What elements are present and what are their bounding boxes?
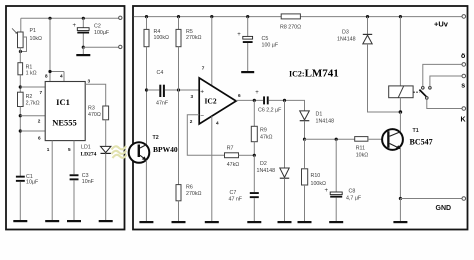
capacitor C5 [237,17,279,71]
svg-text:C6 2,2 µF: C6 2,2 µF [258,107,282,113]
relay actuator dashed link [413,91,419,93]
receiver box frame [133,6,468,230]
svg-text:NE555: NE555 [52,118,77,128]
node pin8 loop junction [48,70,51,73]
wire C4 to op-amp plus input [165,90,199,99]
wire T2 emitter to ground [145,160,147,221]
resistor R1 [18,63,37,77]
svg-text:C2: C2 [94,23,101,29]
wire pin 1 to ground [47,141,52,220]
svg-text:BPW40: BPW40 [153,145,178,154]
wire top rail left [21,18,119,32]
ground under C1 [13,220,27,222]
svg-text:3: 3 [191,94,194,99]
wire NC contact to terminal [423,64,462,86]
svg-text:270kΩ: 270kΩ [186,35,201,41]
terminal s [461,74,465,89]
svg-text:1N4148: 1N4148 [257,168,276,174]
node GND junction [399,197,402,200]
wire pin 2 [20,116,45,124]
ground under T1 [393,221,407,223]
ground under C5 [241,71,254,73]
wire C2 to terminal [83,46,118,48]
wire R2 down to C1 [19,107,21,177]
svg-text:IC2: IC2 [205,97,217,106]
ground under pin 1 [45,220,59,222]
svg-text:R9: R9 [260,127,267,133]
node D3 rail junction [366,15,369,18]
ground under C2 [76,54,90,56]
svg-text:R11: R11 [356,146,365,152]
ground under R6 [172,221,186,223]
wire D3 to coil node [368,44,401,112]
svg-text:2: 2 [38,119,41,124]
svg-text:+: + [255,90,259,96]
terminal +Uv [434,15,466,29]
svg-text:1N4148: 1N4148 [316,118,335,124]
resistor R8 [280,14,301,31]
relay switch arm [419,87,431,100]
wire R4 to T2 collector [146,47,148,145]
potentiometer P1 [12,28,42,52]
node R4 top junction [145,15,148,18]
wire C1 to ground [19,182,21,220]
svg-text:+: + [73,23,77,29]
resistor R5 [176,29,201,47]
svg-text:BC547: BC547 [410,138,433,147]
LED LD1 LD274 [81,145,111,158]
svg-text:1: 1 [47,147,50,152]
svg-text:R5: R5 [186,29,193,35]
wire op-amp pin 4 to ground [212,116,219,221]
svg-text:6: 6 [38,135,41,140]
wire node to T1 collector [399,112,401,132]
svg-text:R8 270Ω: R8 270Ω [280,24,301,30]
phototransistor T2 BPW40 [129,135,178,163]
svg-text:R6: R6 [186,184,193,190]
wire NO contact to terminal [430,76,462,87]
svg-text:2: 2 [190,119,193,124]
node R5 junction on input wire [177,88,180,91]
wire D1 to base node [304,121,306,140]
wire R1 to R2 [19,75,21,92]
node C2 bottom junction [82,46,85,49]
diode D3 [337,17,372,44]
wire pin 6 [20,131,45,140]
label IC2 LM741 [289,68,339,80]
svg-text:100kΩ: 100kΩ [154,35,169,41]
svg-text:s: s [461,83,465,90]
svg-text:D2: D2 [260,161,267,167]
terminal K [461,107,466,124]
wire rail to relay coil [399,17,401,86]
transistor T1 BC547 [382,128,433,150]
svg-text:LD274: LD274 [81,152,97,158]
node top rail pin8 junction [48,17,51,20]
svg-text:7: 7 [40,90,43,95]
svg-text:ö: ö [461,53,465,60]
diode D2 [257,161,290,178]
node C2 top junction [82,17,85,20]
node pin7 junction [19,85,22,88]
wire pin 8 and pin 4 loop [45,18,64,81]
wire pin 5 to C3 [68,141,74,175]
capacitor C8 [325,188,362,202]
svg-text:LD1: LD1 [81,145,91,151]
wire R6 to ground [178,201,180,221]
node D1 R10 junction [303,138,306,141]
node C4 tap junction [145,88,148,91]
svg-text:8: 8 [45,74,48,79]
wire R5 to R6 [178,47,180,185]
svg-text:47kΩ: 47kΩ [260,134,273,140]
wire common to terminal K [427,99,462,108]
wire R7 to node [239,154,255,156]
node R5 top junction [177,15,180,18]
diode D1 [300,111,334,124]
wire C6 to D1 corner [269,100,305,111]
node op-amp pin7 rail junction [210,15,213,18]
wire D2 branch down [284,100,286,168]
node C8 branch junction [335,138,338,141]
wire top supply rail [134,16,462,18]
op-amp IC2 triangle [199,78,236,124]
resistor R7 [225,145,240,168]
svg-text:47nF: 47nF [156,101,169,107]
wire op-amp output [236,93,263,100]
terminal top left box [119,16,122,19]
wire rail to R5 [178,17,180,30]
svg-text:C7: C7 [230,190,237,196]
terminal GND [436,197,466,212]
svg-text:10kΩ: 10kΩ [356,153,369,159]
capacitor C7 [229,190,259,203]
resistor R4 [144,29,169,47]
svg-text:IC2:LM741: IC2:LM741 [289,68,339,80]
wire R11 to T1 base [368,138,388,140]
wire op-amp minus input loop [187,115,224,156]
wire base line to R11 [305,138,355,140]
wire T1 emitter down [399,149,401,199]
svg-text:R7: R7 [227,145,234,151]
node R7 R9 C7 junction [253,154,256,157]
ground under D2 [278,221,292,223]
svg-text:5: 5 [68,147,71,152]
svg-text:D1: D1 [316,111,323,117]
wire node to C7 [253,155,255,192]
svg-text:6: 6 [238,93,241,98]
svg-text:R4: R4 [154,29,161,35]
svg-text:C5: C5 [262,36,269,42]
svg-text:T2: T2 [153,135,159,141]
capacitor C2 [73,18,110,47]
svg-text:4,7 µF: 4,7 µF [346,196,362,202]
capacitor C1 [16,174,39,186]
resistor R11 [355,137,369,159]
svg-text:+: + [325,188,329,194]
wire C7 to ground [253,198,255,221]
resistor R6 [176,184,201,201]
wire R10 leads [304,139,306,221]
node pin2 junction [19,114,22,117]
svg-text:100µF: 100µF [94,30,110,36]
svg-text:R3: R3 [88,105,95,111]
wire rail to R4 [146,17,148,30]
ground under T2 [139,221,153,223]
wire C2 to ground [82,47,84,54]
wire pin 7 [20,87,45,95]
svg-text:47kΩ: 47kΩ [227,162,240,168]
svg-text:−: − [200,113,204,120]
wire C3 to ground [73,180,75,220]
ground under LED [99,220,113,222]
ground under C7 [247,221,261,223]
light waves from LED [112,146,127,158]
wire R3 to LED [105,120,107,147]
svg-text:470Ω: 470Ω [88,112,101,118]
svg-text:4: 4 [216,121,219,126]
svg-text:2,7kΩ: 2,7kΩ [26,100,40,106]
svg-text:+: + [200,89,204,96]
ground under R10 [298,221,312,223]
svg-text:7: 7 [202,66,205,71]
wire GND to terminal [400,198,462,200]
ground under pin 4 [205,221,219,223]
node C5 rail junction [246,15,249,18]
wire C8 to ground [335,198,337,221]
svg-text:D3: D3 [342,30,349,36]
svg-text:GND: GND [436,205,452,212]
wire C8 branch down [335,139,337,192]
svg-text:R10: R10 [311,173,321,179]
capacitor C3 [70,173,95,185]
svg-text:IC1: IC1 [56,97,70,107]
wire output node down to R9 [253,100,255,126]
wire D2 to ground [284,178,286,221]
svg-text:3: 3 [88,79,91,84]
wire T1 emitter to ground [399,199,401,222]
resistor R3 [88,105,109,119]
wire to C4 [147,89,160,91]
relay coil K1 [389,86,413,98]
svg-text:+Uv: +Uv [434,20,449,29]
wire op-amp pin 7 [202,17,212,86]
wire pin 3 to R3 [85,79,106,106]
svg-text:+: + [237,32,241,38]
svg-text:1 kΩ: 1 kΩ [26,71,37,77]
svg-text:10µF: 10µF [26,180,39,186]
capacitor C6 [255,90,282,113]
resistor R2 [18,92,40,106]
node D2 branch junction [283,99,286,102]
ground under C3 [67,220,81,222]
terminal second left box [119,45,122,48]
svg-text:K: K [461,117,466,124]
capacitor C4 [156,70,169,107]
svg-text:T1: T1 [413,128,419,134]
svg-text:4: 4 [60,74,63,79]
svg-text:10nF: 10nF [82,179,95,185]
resistor R9 [251,126,272,141]
transmitter box frame [6,6,125,230]
svg-text:1N4148: 1N4148 [337,37,356,43]
node relay rail junction [399,15,402,18]
node coil D3 T1 junction [399,110,403,114]
svg-text:270kΩ: 270kΩ [186,191,201,197]
wire LED to ground [105,153,107,220]
wire R9 to node [253,142,255,156]
svg-text:100 µF: 100 µF [262,42,279,48]
node pin6 junction [19,129,22,132]
op IC1 NE555 [45,82,85,141]
svg-text:100kΩ: 100kΩ [311,181,326,187]
terminal o [461,53,466,66]
node P1 wiper junction [19,50,22,53]
svg-text:C4: C4 [157,70,164,76]
svg-text:P1: P1 [30,28,37,34]
wire P1 to R1 [19,48,21,63]
node output junction [253,99,256,102]
resistor R10 [302,169,326,187]
svg-text:C8: C8 [349,189,356,195]
svg-text:R2: R2 [26,94,33,100]
wire relay coil to node [399,98,401,112]
svg-text:47 nF: 47 nF [229,197,243,203]
svg-text:10kΩ: 10kΩ [30,36,43,42]
ground under C8 [329,221,343,223]
